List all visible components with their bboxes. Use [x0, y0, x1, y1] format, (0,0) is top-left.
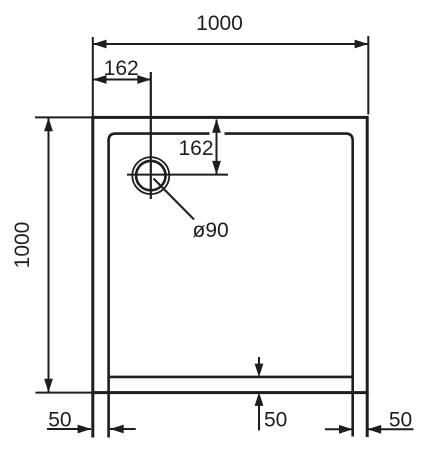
dim 1000 top: right arrowhead: [355, 40, 369, 49]
dim 162 vertical: dimension line: [216, 120, 218, 175]
dim 1000 left: bottom tick: [36, 392, 93, 394]
dim 1000 top: left arrowhead: [93, 40, 107, 49]
dim 50 bottom-left: left-pointing arrowhead: [110, 425, 124, 434]
dim 1000 left: top arrowhead: [44, 118, 53, 132]
svg-text:ø90: ø90: [193, 219, 229, 242]
svg-text:1000: 1000: [196, 12, 243, 35]
dim 162 vertical: top arrowhead: [212, 119, 221, 133]
dim 162 top: dimension line: [93, 79, 151, 81]
dim 50 bottom-centre: down arrowhead: [255, 364, 264, 378]
svg-text:162: 162: [104, 57, 139, 80]
dim 50 bottom-right: right tail line: [368, 428, 414, 430]
dim 50 bottom-right: left tail line: [325, 428, 352, 430]
inner tray outline: [109, 134, 353, 438]
dim 50 bottom-centre: up arrowhead: [255, 392, 264, 406]
outer edge extension below-right: [366, 393, 369, 437]
dim 1000 left: bottom arrowhead: [44, 379, 53, 393]
svg-text:50: 50: [264, 409, 287, 432]
dim 1000 top: left extension line: [92, 37, 94, 117]
dim 50 bottom-left: right-pointing arrowhead: [78, 425, 92, 434]
outer edge extension below-left: [91, 393, 94, 438]
drain horizontal centreline: [127, 174, 228, 176]
drain inner circle: [136, 161, 165, 190]
drain centre vertical extension line: [150, 72, 152, 199]
outer tray outline: [93, 117, 367, 392]
svg-text:50: 50: [389, 409, 412, 432]
svg-text:1000: 1000: [11, 222, 34, 269]
dim 50 bottom-centre: upper line: [258, 357, 260, 368]
dim 1000 left: top tick: [35, 116, 92, 118]
dim 50 bottom-left: right tail line: [110, 428, 136, 430]
dim 162 top: right arrowhead: [137, 75, 151, 84]
drain leader line: [154, 179, 195, 220]
gap in inner top edge for vertical 162 dimension: [210, 132, 225, 136]
dim 1000 left: dimension line: [48, 118, 50, 392]
dim 50 bottom-left: left tail line: [47, 428, 91, 430]
svg-text:162: 162: [178, 137, 213, 160]
dim 50 bottom-right: right-pointing arrowhead: [339, 425, 353, 434]
drain outer circle: [132, 157, 169, 194]
dim 1000 top: right extension line: [367, 36, 369, 115]
dim 162 top: left arrowhead: [93, 75, 107, 84]
dim 50 bottom-centre: lower line: [258, 402, 260, 431]
dim 50 bottom-right: left-pointing arrowhead: [368, 425, 382, 434]
inner bottom edge: [109, 376, 353, 379]
dim 1000 top: dimension line: [93, 43, 368, 45]
dim 162 vertical: bottom arrowhead: [212, 161, 221, 175]
svg-text:50: 50: [48, 408, 71, 431]
